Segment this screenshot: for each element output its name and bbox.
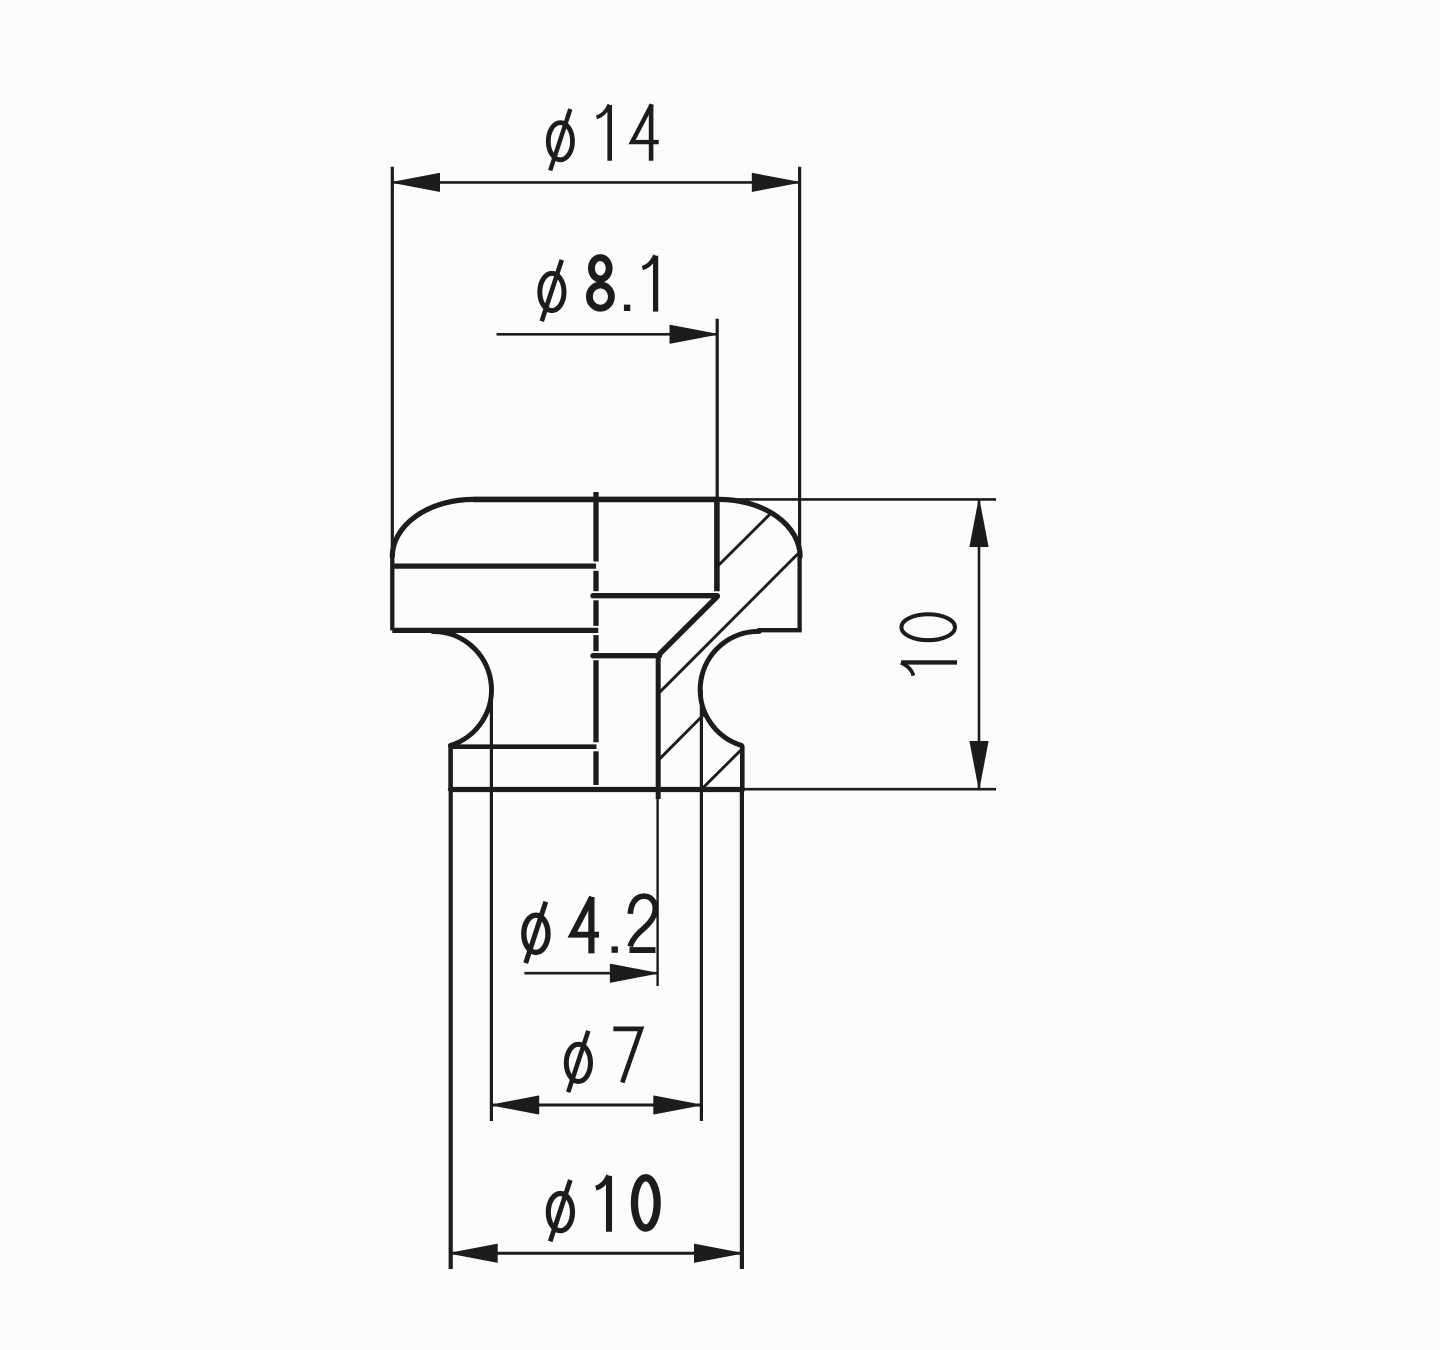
extension line ø8.1 [716,319,719,499]
extension line ø14 left [391,167,394,556]
hole ø4.2 top face [593,653,660,658]
neck cove left arc [433,631,492,745]
extension line ø14 right [798,167,801,556]
hatch line D (flange) [704,749,743,787]
extension line ø7 right [700,690,703,1121]
extension line ø7 left [490,690,493,1121]
dimension label ø10 [548,1176,657,1242]
counterbore bottom face [593,593,717,598]
hatch line C (neck) [658,713,705,760]
dimension line height-10 [970,499,988,788]
countersink taper edge [660,597,718,654]
flange right edge [740,746,745,790]
hole ø4.2 right wall [656,654,661,799]
dimension line ø10 [450,1244,742,1262]
cap bottom edge right [758,628,802,632]
neck cove right arc [700,631,759,745]
dimension line ø4.2 [524,964,657,982]
extension line ø4.2 [656,792,658,986]
dimension line ø14 [392,173,799,191]
flange left edge [448,747,453,790]
cap bottom edge left [392,628,598,633]
extension line height-10 top [722,498,996,501]
hatch line B (cap to hole) [658,552,800,694]
flange bottom edge [450,787,742,792]
dimension label ø8.1 [540,255,656,321]
shank right edge [740,790,744,1270]
dimension label ø7 [566,1029,641,1092]
shoulder edge left [450,744,596,749]
cap top edge [473,497,719,503]
dimension line ø7 [492,1096,702,1114]
dimension line ø8.1 [497,325,718,343]
dimension label ø14 [548,104,658,170]
counterbore ø8.1 right wall [714,499,720,591]
cap seam line [390,563,596,568]
cap left edge [390,554,394,630]
dimension label ø4.2 [524,896,656,963]
shank left edge [449,790,453,1270]
hatch line A (cap ring) [717,513,771,567]
cap top-left corner arc [392,499,473,556]
dimension label 10 (rotated) [901,614,957,675]
centerline (half-section boundary) [593,492,598,785]
cap right edge [797,554,801,630]
extension line height-10 bottom [744,788,996,791]
cap top-right corner arc [719,499,800,556]
